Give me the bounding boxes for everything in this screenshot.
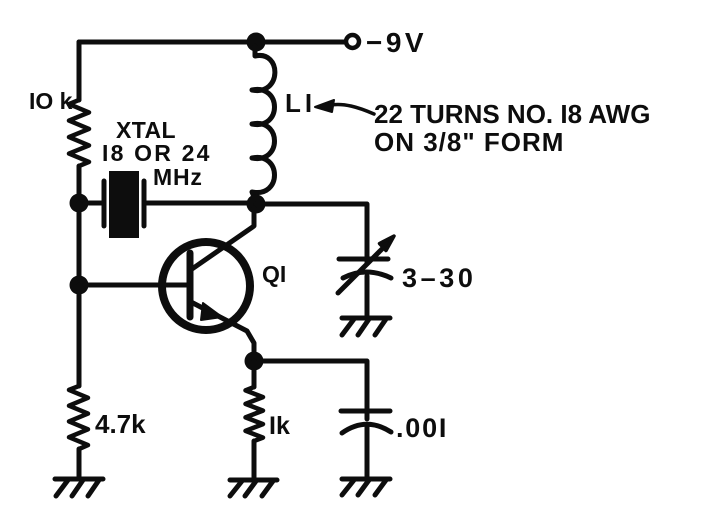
wire base lead — [85, 283, 187, 288]
terminal -9V open circle — [346, 35, 359, 48]
svg-text:IO k: IO k — [29, 88, 73, 114]
wire top supply rail — [79, 40, 344, 45]
transistor Q1 emitter lead with arrow — [191, 302, 254, 356]
wire left branch between xtal node and base node — [77, 203, 82, 285]
wire emitter node to bypass cap — [254, 361, 367, 419]
ground under .001 cap — [342, 479, 390, 495]
resistor R 10k — [69, 100, 89, 166]
node base junction — [70, 276, 89, 295]
wire .001 to ground — [365, 427, 370, 479]
variable capacitor arrow — [338, 236, 394, 293]
svg-text:3–30: 3–30 — [402, 263, 476, 293]
wire left branch down to 4.7k — [77, 285, 82, 386]
wire emitter node down to 1k — [252, 361, 257, 387]
capacitor .001 top plate — [341, 409, 390, 414]
transistor Q1 collector lead — [192, 208, 254, 269]
wire 1k to ground — [252, 441, 257, 480]
crystal XTAL body — [109, 171, 139, 238]
node top rail junction — [247, 33, 266, 52]
transistor Q1 base bar — [187, 253, 194, 317]
transistor Q1 circle — [162, 242, 250, 330]
node xtal-left junction — [70, 194, 89, 213]
variable capacitor top plate — [339, 257, 388, 262]
svg-text:QI: QI — [262, 261, 286, 287]
resistor R 1k — [246, 387, 264, 441]
wire collector node to variable cap — [256, 204, 367, 262]
crystal XTAL right plate — [142, 181, 147, 226]
node emitter junction — [245, 352, 264, 371]
svg-text:22 TURNS NO. I8 AWG: 22 TURNS NO. I8 AWG — [374, 99, 650, 129]
svg-text:.00I: .00I — [396, 413, 448, 443]
variable capacitor bottom plate — [343, 272, 391, 278]
node inductor bottom junction — [247, 195, 266, 214]
wire 4.7k to ground — [77, 449, 82, 479]
inductor L1 — [252, 46, 275, 200]
crystal XTAL left plate — [102, 181, 107, 226]
wire variable cap to ground — [365, 276, 370, 318]
svg-text:ON 3/8" FORM: ON 3/8" FORM — [374, 127, 564, 157]
svg-text:MHz: MHz — [153, 164, 203, 190]
wire xtal left lead — [85, 201, 104, 206]
ground under 1k — [230, 480, 277, 496]
svg-text:LI: LI — [285, 88, 316, 118]
resistor R 4.7k — [69, 386, 88, 449]
wire left branch between 10k and xtal node — [77, 166, 82, 203]
ground under 4.7k — [55, 479, 103, 496]
wire xtal right lead to collector node — [144, 201, 256, 206]
svg-text:4.7k: 4.7k — [95, 409, 146, 439]
svg-text:−9V: −9V — [366, 27, 427, 58]
wire left branch upper — [77, 42, 82, 100]
svg-text:Ik: Ik — [269, 412, 290, 440]
ground under variable cap — [342, 318, 390, 335]
svg-text:I8 OR 24: I8 OR 24 — [102, 140, 212, 166]
leader arrow from note to L1 — [315, 100, 374, 114]
capacitor .001 bottom plate — [342, 424, 391, 433]
